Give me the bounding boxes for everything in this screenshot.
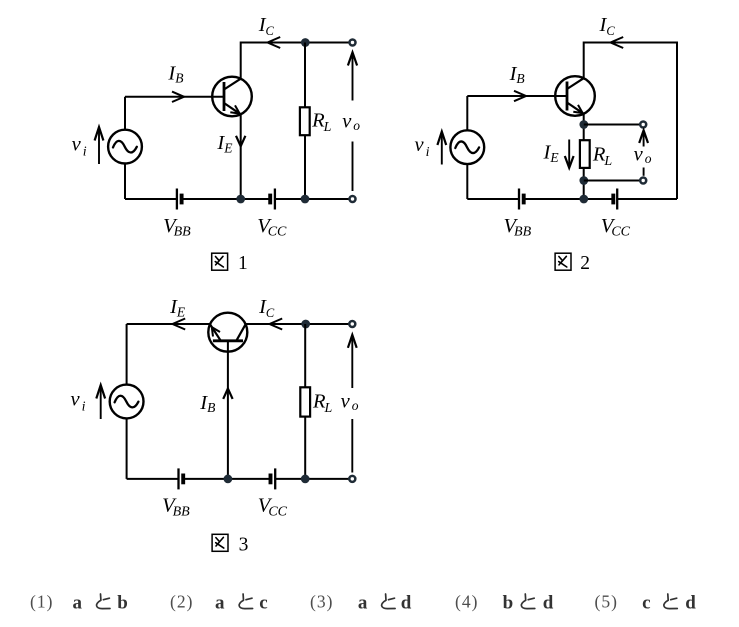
node dot fig2 bottom	[579, 195, 588, 204]
wire: fig2 emitter node to terminal	[584, 124, 640, 126]
arrow v_o fig3	[348, 335, 357, 348]
svg-text:a: a	[358, 593, 368, 614]
battery V_BB fig2	[518, 189, 520, 210]
transistor Q2 (fig2 common-collector)	[555, 76, 595, 116]
svg-text:1: 1	[238, 253, 248, 274]
wire: fig1 bottom rail segment 2	[182, 198, 271, 200]
wire: fig1 collector up and top rail	[241, 43, 350, 79]
wire: fig2 left vertical (bottom)	[466, 164, 468, 199]
arrow I_E fig2 (separate, pointing down)	[568, 140, 570, 166]
arrow v_o fig1	[348, 52, 357, 65]
wire: fig1 bottom rail segment 3	[275, 198, 349, 200]
source V3 fig3 (ac source)	[110, 385, 144, 419]
svg-text:b: b	[503, 593, 514, 614]
wire: fig2 bottom rail segment 1	[467, 198, 519, 200]
arrow v_i fig2	[437, 132, 446, 146]
wire: fig3 left vertical (bottom)	[126, 418, 128, 479]
terminal fig1 bottom output	[350, 196, 356, 202]
svg-text:d: d	[685, 593, 696, 614]
resistor R_L fig1	[300, 107, 310, 135]
wire: fig3 bottom rail segment 3	[275, 478, 349, 480]
caption 図3	[212, 534, 228, 551]
battery V_BB fig3	[177, 468, 179, 489]
wire: fig2 left vertical (top)	[466, 96, 468, 130]
arrow I_B fig3 (on base wire, pointing up)	[223, 389, 232, 399]
svg-text:(3): (3)	[310, 592, 333, 612]
terminal fig3 bottom output	[349, 476, 355, 482]
battery V_CC fig1	[274, 189, 276, 210]
svg-text:2: 2	[580, 253, 590, 274]
caption 図1	[212, 253, 228, 270]
terminal fig1 top output	[350, 40, 356, 46]
svg-text:(2): (2)	[170, 592, 193, 612]
wire: fig1 RL branch vertical	[304, 43, 306, 200]
wire: fig2 bottom rail segment 2	[524, 198, 614, 200]
svg-text:b: b	[117, 593, 128, 614]
svg-text:d: d	[401, 593, 412, 614]
svg-text:a: a	[215, 593, 225, 614]
wire: fig3 left vertical (top)	[126, 324, 128, 385]
wire: fig1 base wire	[125, 96, 224, 98]
resistor R_L fig2	[580, 140, 590, 168]
arrow I_C fig3	[270, 319, 283, 330]
battery V_CC fig3	[274, 468, 276, 489]
source V1 fig1 (ac source)	[108, 130, 142, 164]
node dot fig3 base-bottom	[224, 475, 233, 484]
wire: fig2 emitter down to bottom rail	[583, 114, 585, 199]
wire: fig2 base wire	[467, 95, 567, 97]
svg-text:c: c	[259, 593, 267, 614]
svg-text:d: d	[543, 593, 554, 614]
svg-text:(5): (5)	[595, 592, 618, 612]
arrow I_C fig2	[611, 37, 624, 48]
wire: fig3 top rail right of transistor	[246, 323, 349, 325]
node dot fig1 top (collector/RL junction)	[301, 38, 310, 47]
wire: fig2 RL bottom node to terminal	[584, 180, 640, 182]
node dot fig2 RL bottom node	[579, 176, 588, 185]
node dot fig1 emitter-bottom	[236, 195, 245, 204]
svg-text:a: a	[73, 593, 83, 614]
transistor Q3 (fig3 common-base)	[208, 313, 247, 352]
arrow I_E fig1 (on emitter wire, pointing down)	[236, 136, 245, 146]
terminal fig3 top output	[349, 321, 355, 327]
terminal fig2 top output	[640, 122, 646, 128]
arrow I_E fig3	[173, 319, 186, 330]
arrow I_B fig1	[172, 92, 184, 102]
arrow v_i fig1	[95, 127, 104, 141]
node dot fig3 top RL junction	[301, 320, 310, 329]
wire: fig2 collector up, top rail, right vertical	[584, 43, 677, 200]
resistor R_L fig3	[300, 387, 310, 416]
terminal fig2 bottom output	[640, 178, 646, 184]
wire: fig1 emitter down	[240, 114, 242, 199]
wire: fig3 bottom rail segment 1	[127, 478, 179, 480]
wire: fig2 bottom rail segment 3	[617, 198, 677, 200]
svg-text:(1): (1)	[30, 592, 53, 612]
battery V_CC fig2	[616, 189, 618, 210]
node dot fig3 bottom RL junction	[301, 475, 310, 484]
wire: fig3 top rail left of transistor	[127, 323, 211, 325]
source V2 fig2 (ac source)	[450, 130, 484, 164]
arrow I_C fig1	[268, 37, 281, 48]
wire: fig1 left vertical (top)	[124, 97, 126, 130]
transistor Q1 (fig1 common-emitter)	[212, 77, 252, 117]
svg-text:(4): (4)	[455, 592, 478, 612]
node dot fig1 bottom RL junction	[301, 195, 310, 204]
svg-text:c: c	[642, 593, 650, 614]
arrow I_B fig2	[514, 91, 526, 101]
battery V_BB fig1	[176, 189, 178, 210]
node dot fig2 emitter node	[579, 120, 588, 129]
wire: fig3 RL branch vertical	[304, 324, 306, 479]
wire: fig3 base vertical down	[227, 341, 229, 479]
caption 図2	[555, 253, 571, 270]
arrow v_i fig3	[96, 385, 105, 399]
wire: fig3 bottom rail segment 2	[183, 478, 270, 480]
svg-text:3: 3	[239, 534, 249, 555]
wire: fig1 left vertical (bottom)	[124, 164, 126, 200]
wire: fig1 bottom rail segment 1	[125, 198, 177, 200]
arrow v_o fig2	[639, 130, 648, 143]
